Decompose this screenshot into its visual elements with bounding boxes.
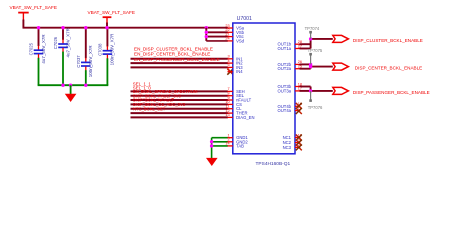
svg-text:NTC_BCKL_SET: NTC_BCKL_SET <box>133 106 166 111</box>
wire CS with net label DISP_BCKL_CS_ADC_3V3 <box>131 102 228 107</box>
wire TAB <box>212 145 228 147</box>
no-connect NC1 <box>296 135 302 141</box>
svg-text:13: 13 <box>225 113 229 117</box>
no-connect OUT4b <box>296 103 302 109</box>
port DISP_PASSENGER_BCKL_ENABLE <box>333 87 430 94</box>
svg-text:DISP_PASSENGER_BCKL_ENABLE: DISP_PASSENGER_BCKL_ENABLE <box>353 90 430 95</box>
svg-text:TAB: TAB <box>236 143 244 148</box>
svg-text:OUT2a: OUT2a <box>278 66 292 71</box>
svg-text:U7001: U7001 <box>237 16 252 22</box>
no-connect OUT4a <box>296 108 302 114</box>
power symbol VBAT_SW_FLT_SAFE (second) <box>88 10 136 23</box>
wire GND2 <box>212 141 228 143</box>
wire top supply rail VBAT_SW_FLT_SAFE <box>23 27 228 29</box>
node junction dots on supply rail <box>37 26 208 29</box>
svg-text:TP7074: TP7074 <box>305 26 320 31</box>
wire THER <box>131 112 228 114</box>
wire from second power symbol down to rail <box>106 23 108 28</box>
no-connect IN4 <box>227 69 233 75</box>
node junctions on ground rail <box>61 84 87 87</box>
svg-text:11: 11 <box>226 105 230 109</box>
net label EN_DISP_CLUSTER_BCKL_ENABLE <box>134 46 213 51</box>
testpoint TP7076 <box>308 91 323 110</box>
capacitor C7025 4u7_50V_X7R <box>29 28 46 85</box>
capacitor C7038 100n_50V_X7R <box>98 28 115 85</box>
svg-text:100n_50V_X7R: 100n_50V_X7R <box>110 33 115 66</box>
node VS junctions <box>205 31 208 39</box>
net label EN_DISP_CENTER_BCKL_ENABLE <box>134 52 210 57</box>
wire CL with net label NTC_BCKL_SET <box>131 106 228 111</box>
svg-text:EN_DISP_CENTER_BCKL_ENABLE: EN_DISP_CENTER_BCKL_ENABLE <box>134 52 210 57</box>
svg-text:VBAT_SW_FLT_SAFE: VBAT_SW_FLT_SAFE <box>10 5 58 10</box>
svg-text:DISP_CENTER_BCKL_ENABLE: DISP_CENTER_BCKL_ENABLE <box>355 66 422 71</box>
svg-text:EN_DISP_PASSENGER_BCKL_ENABLE: EN_DISP_PASSENGER_BCKL_ENABLE <box>134 57 220 62</box>
wire from left power symbol to top rail <box>22 20 24 28</box>
svg-text:C7026: C7026 <box>53 36 58 49</box>
svg-text:DIAG_EN: DIAG_EN <box>236 115 254 120</box>
svg-text:TP7075: TP7075 <box>308 48 323 53</box>
svg-text:6: 6 <box>227 68 229 72</box>
svg-text:TP7076: TP7076 <box>308 105 323 110</box>
svg-text:OUT1a: OUT1a <box>278 46 292 51</box>
svg-text:TPS4H160B-Q1: TPS4H160B-Q1 <box>256 161 291 167</box>
wire OUT2 group to port <box>300 63 333 69</box>
svg-text:DISP_CLUSTER_BCKL_ENABLE: DISP_CLUSTER_BCKL_ENABLE <box>353 38 423 43</box>
wire VSc stub <box>206 36 228 38</box>
net label EN_DISP_PASSENGER_BCKL_ENABLE <box>134 57 220 62</box>
svg-text:9: 9 <box>227 96 229 100</box>
testpoint TP7075 <box>308 48 323 64</box>
port DISP_CLUSTER_BCKL_ENABLE <box>333 35 423 42</box>
wire GND1 <box>212 137 228 139</box>
svg-text:C7025: C7025 <box>29 42 34 55</box>
IC U7001 TPS4H160B-Q1 body <box>233 16 295 167</box>
wire SEH with net label EN_BCKL_SPREAD_SPECTRUM <box>131 89 228 94</box>
wire vertical to IC ground <box>211 138 213 159</box>
wire OUT3 group to port <box>300 87 333 93</box>
net label SEL_1_1 <box>133 81 152 86</box>
port DISP_CENTER_BCKL_ENABLE <box>333 63 422 70</box>
svg-text:100n_50V_X7R: 100n_50V_X7R <box>88 45 93 78</box>
svg-text:C7037: C7037 <box>76 55 81 68</box>
svg-text:4u7_50V_X7R: 4u7_50V_X7R <box>41 34 46 64</box>
svg-text:NC3: NC3 <box>283 145 292 150</box>
capacitor C7037 100n_50V_X7R <box>76 28 93 85</box>
power symbol VBAT_SW_FLT_SAFE (left) <box>10 5 58 20</box>
wire DIAG_EN <box>131 116 228 118</box>
svg-text:C7038: C7038 <box>98 43 103 56</box>
svg-text:IN4: IN4 <box>236 69 243 74</box>
wire IN2 <box>131 62 228 64</box>
svg-text:EN_DISP_CLUSTER_BCKL_ENABLE: EN_DISP_CLUSTER_BCKL_ENABLE <box>134 46 213 51</box>
svg-text:OUT3a: OUT3a <box>278 88 292 93</box>
net label SEL_1_0 <box>133 86 152 91</box>
wire nFAULT with net label DISP_BCKL_NFAULT <box>131 98 228 103</box>
svg-text:VSd: VSd <box>236 38 245 43</box>
no-connect NC2 <box>296 140 302 146</box>
IC right pins with numbers <box>278 40 303 150</box>
node GND junctions <box>210 140 213 147</box>
no-connect NC3 <box>296 144 302 150</box>
wire VSb stub <box>206 31 228 33</box>
wire vertical VS feed <box>205 28 207 41</box>
wire OUT1 group to port <box>300 37 333 48</box>
svg-text:24: 24 <box>225 37 229 41</box>
wire VSd stub <box>206 40 228 42</box>
wire IN3 <box>131 66 228 68</box>
wire ground rail under capacitors <box>38 84 109 86</box>
capacitor C7026 4u7_50V_X7R <box>53 27 70 85</box>
wire SEL with net label DISP_BCKL_FAULT_3V3 <box>131 93 228 98</box>
testpoint TP7074 <box>305 26 320 39</box>
svg-text:VBAT_SW_FLT_SAFE: VBAT_SW_FLT_SAFE <box>88 10 136 15</box>
svg-text:4u7_50V_X7R: 4u7_50V_X7R <box>65 27 70 57</box>
svg-text:14: 14 <box>225 142 229 146</box>
wire IN1 <box>131 58 228 60</box>
ground (decoupling bank) <box>65 85 77 102</box>
svg-text:OUT4a: OUT4a <box>278 108 292 113</box>
IC left pins with numbers <box>225 24 254 149</box>
ground (IC) <box>206 158 218 166</box>
